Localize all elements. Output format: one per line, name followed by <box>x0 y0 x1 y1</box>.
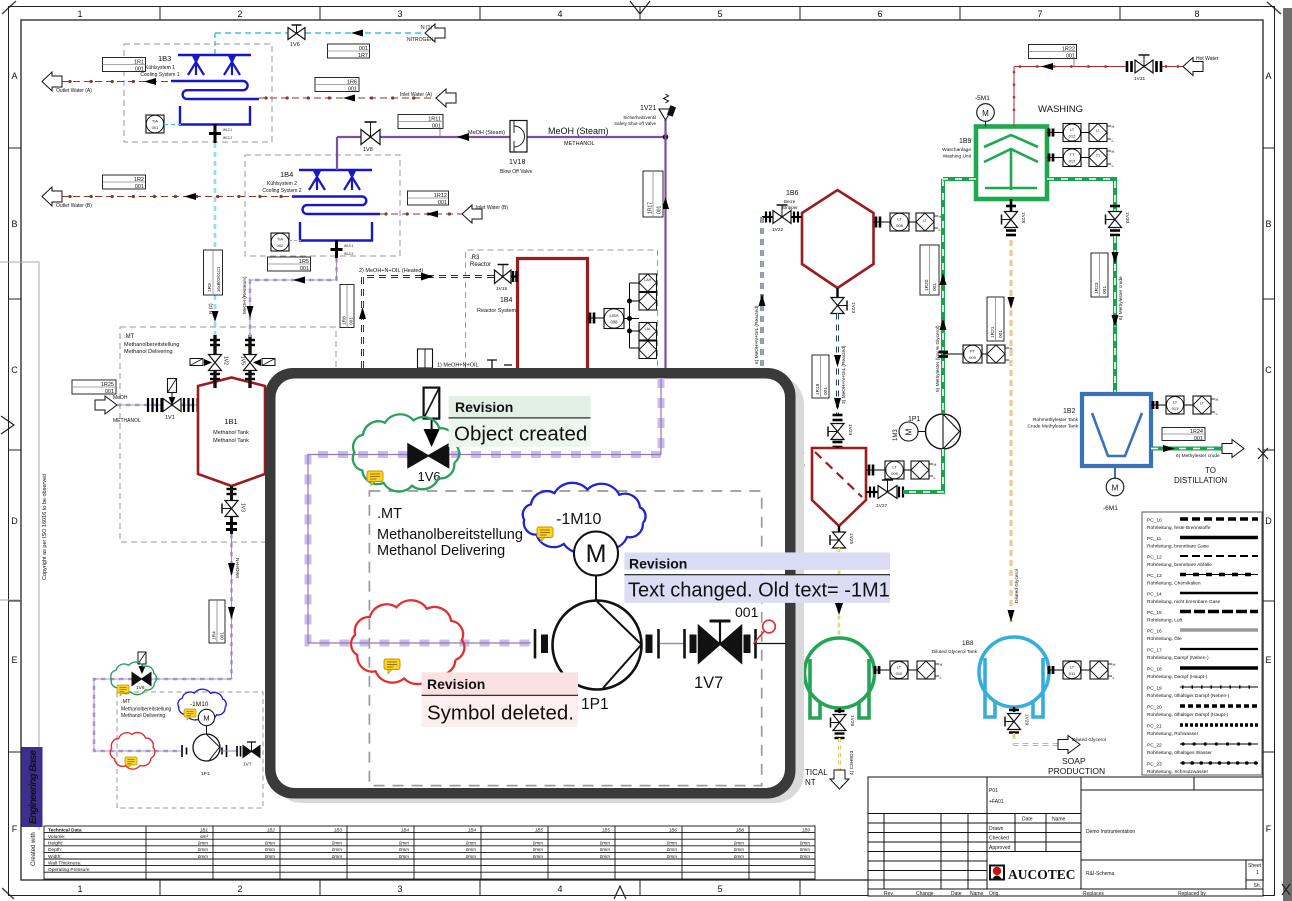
svg-text:Volume:: Volume: <box>48 834 65 840</box>
svg-text:Name: Name <box>1052 817 1066 823</box>
instrument LISA 008 <box>588 309 625 329</box>
svg-text:011: 011 <box>1069 671 1076 676</box>
drain cross 1B3 <box>209 124 221 143</box>
fold mark bottom-left <box>2 888 14 899</box>
svg-text:AUCOTEC: AUCOTEC <box>1008 867 1076 882</box>
svg-text:Methanol Tank: Methanol Tank <box>213 438 249 444</box>
svg-text:4: 4 <box>557 884 562 894</box>
popup blue cloud <box>523 483 646 553</box>
flag Outlet Water (B) <box>42 187 62 206</box>
diagonal inside 1B7 <box>815 452 862 497</box>
svg-text:Rohrleitung, Chemikalien: Rohrleitung, Chemikalien <box>1147 581 1201 587</box>
svg-text:1R21: 1R21 <box>990 326 996 338</box>
svg-text:W12.1: W12.1 <box>223 128 232 132</box>
svg-text:Methanolbereitstellung: Methanolbereitstellung <box>124 342 179 348</box>
svg-text:NITROGEN: NITROGEN <box>407 37 434 43</box>
svg-text:PC_17: PC_17 <box>1147 648 1162 654</box>
svg-text:1B6: 1B6 <box>669 828 678 833</box>
top ruler column ticks <box>160 7 1120 21</box>
svg-text:Replaced by: Replaced by <box>1178 891 1206 897</box>
svg-text:001: 001 <box>220 632 226 640</box>
svg-text:0mm: 0mm <box>600 841 610 846</box>
wire TIA001 to basin <box>164 124 181 126</box>
row letters right <box>1265 71 1272 834</box>
label 1R22 <box>1029 45 1077 67</box>
svg-text:1R25: 1R25 <box>101 382 114 388</box>
svg-text:0mm: 0mm <box>265 854 275 859</box>
label 1R17 vertical <box>643 171 663 217</box>
svg-text:0mm: 0mm <box>667 841 677 846</box>
svg-text:3) MeOH+N+OIL (Reacted): 3) MeOH+N+OIL (Reacted) <box>841 345 847 404</box>
svg-text:1V23: 1V23 <box>850 302 856 314</box>
valve 1V1 <box>163 379 181 422</box>
svg-text:001: 001 <box>300 266 309 272</box>
tank 1B1 <box>198 378 265 487</box>
svg-text:010: 010 <box>896 671 903 676</box>
svg-text:1B5: 1B5 <box>535 828 544 833</box>
air cooler 1B4 fan symbol right <box>344 171 360 190</box>
drain cross 1B4 <box>331 240 343 258</box>
svg-text:Kühlsystem 2: Kühlsystem 2 <box>267 181 297 187</box>
svg-text:TO: TO <box>1205 466 1216 475</box>
svg-text:-1M10: -1M10 <box>556 511 601 528</box>
svg-text:6) MeOH+N+OIL (Reacted): 6) MeOH+N+OIL (Reacted) <box>754 305 760 364</box>
mini comment icon blue <box>184 709 196 720</box>
svg-text:PC_20: PC_20 <box>1147 705 1162 711</box>
motor -5M1 <box>975 95 994 127</box>
arrow on MeOH steam line <box>457 133 469 141</box>
svg-text:H: H <box>1112 124 1115 129</box>
svg-text:Waschanlage: Waschanlage <box>942 147 971 153</box>
svg-text:001: 001 <box>359 46 368 52</box>
svg-text:4) C3H8O3: 4) C3H8O3 <box>849 750 855 775</box>
svg-text:1B9: 1B9 <box>802 828 811 833</box>
svg-text:0mm: 0mm <box>734 841 744 846</box>
popup pump 1P1 (magnified) <box>535 601 684 714</box>
middle column <box>987 813 1081 815</box>
svg-text:N (2): N (2) <box>208 303 214 314</box>
svg-text:Rohrleitung, Dampf (Neben-): Rohrleitung, Dampf (Neben-) <box>1147 655 1209 661</box>
svg-text:Rohmethylester Tank: Rohmethylester Tank <box>1033 417 1079 423</box>
safety valve 1V21 <box>614 94 676 137</box>
svg-text:METHANOL: METHANOL <box>113 418 141 424</box>
valve 1V23 below 1B6 <box>831 288 856 314</box>
instrument LT 010 <box>874 661 943 680</box>
popup green cloud <box>353 414 459 491</box>
motor -6M1 <box>1103 466 1124 512</box>
svg-text:PC_13: PC_13 <box>1147 573 1162 579</box>
svg-text:1B2: 1B2 <box>267 828 276 833</box>
label 1R21 vertical <box>987 297 1004 341</box>
svg-text:1: 1 <box>77 884 82 894</box>
svg-text:M: M <box>203 714 209 723</box>
label 1R6 <box>315 78 359 93</box>
washing internals bottom bar <box>985 187 1037 190</box>
svg-text:012: 012 <box>1069 134 1076 139</box>
mini valve 1V6 <box>132 652 151 691</box>
svg-text:Height:: Height: <box>48 841 63 847</box>
svg-text:1R23: 1R23 <box>1094 282 1100 294</box>
svg-text:Rohrleitung, Luft: Rohrleitung, Luft <box>1147 618 1183 624</box>
pipe 1V24 to 1B7 <box>836 447 838 448</box>
svg-text:LT: LT <box>1070 665 1075 670</box>
pipe yellow 4) C3H8O3 <box>838 738 840 770</box>
svg-text:2: 2 <box>237 9 242 19</box>
svg-text:Rohrleitung, nicht brennbare G: Rohrleitung, nicht brennbare Gase <box>1147 599 1221 605</box>
popup comment icon green <box>367 471 383 486</box>
pipe MeOH steam vertical to popup <box>664 137 666 368</box>
svg-text:0mm: 0mm <box>466 847 476 852</box>
valve 1V15 <box>494 265 518 293</box>
svg-text:008: 008 <box>896 223 903 228</box>
svg-text:002: 002 <box>277 243 284 248</box>
svg-text:DISTILLATION: DISTILLATION <box>1174 476 1227 485</box>
reactor vessel <box>518 259 588 369</box>
svg-text:0mm: 0mm <box>734 847 744 852</box>
svg-text:PC_23: PC_23 <box>1147 762 1162 768</box>
svg-text:Methanol Tank: Methanol Tank <box>213 430 249 436</box>
alarm diamond LALL <box>639 341 657 359</box>
instrument TIA 002 <box>271 233 289 251</box>
pipe hot water <box>1014 63 1183 127</box>
svg-text:Outlet Water (B): Outlet Water (B) <box>56 203 92 209</box>
svg-text:4: 4 <box>557 9 562 19</box>
svg-text:0mm: 0mm <box>734 854 744 859</box>
svg-text:Technical Data: Technical Data <box>48 828 82 834</box>
svg-text:E: E <box>11 655 17 665</box>
svg-text:Diluted Glycerol: Diluted Glycerol <box>1072 737 1106 743</box>
svg-text:1V29: 1V29 <box>1024 714 1030 726</box>
svg-text:A: A <box>1265 71 1271 81</box>
flag Hot Water <box>1183 58 1203 76</box>
popup valve 1V6 (magnified) <box>408 388 449 484</box>
svg-text:Date: Date <box>1022 817 1033 823</box>
svg-text:PC_15: PC_15 <box>1147 610 1162 616</box>
popup pipe loop (magnified) <box>308 378 661 643</box>
svg-text:PC_22: PC_22 <box>1147 743 1162 749</box>
pipe methanol feed <box>117 404 198 407</box>
svg-text:1B3: 1B3 <box>158 54 171 63</box>
flag Outlet Water (A) <box>42 72 62 91</box>
svg-text:Methanol Delivering: Methanol Delivering <box>121 713 165 719</box>
label 1R8 vertical <box>340 285 355 328</box>
svg-text:0mm: 0mm <box>332 847 342 852</box>
popup shadow <box>272 375 804 803</box>
svg-text:W13.2: W13.2 <box>344 252 353 256</box>
pipe MeOH resteam return <box>247 258 337 337</box>
pipe washing bottom outlet <box>1010 199 1013 212</box>
cooling coil 1B3 <box>171 81 259 99</box>
svg-text:8: 8 <box>1194 9 1199 19</box>
svg-text:PC_10: PC_10 <box>1147 518 1162 524</box>
svg-text:2: 2 <box>237 884 242 894</box>
flag Inlet Water (A) <box>436 89 456 107</box>
svg-text:001: 001 <box>998 330 1004 338</box>
faint window edge lines left <box>0 262 39 830</box>
svg-text:W12.2: W12.2 <box>223 136 232 140</box>
svg-text:Orig.: Orig. <box>989 891 1000 897</box>
svg-text:1B6: 1B6 <box>786 190 799 197</box>
svg-text:LT: LT <box>1070 127 1075 132</box>
svg-text:H: H <box>1112 149 1115 154</box>
svg-text:.MT: .MT <box>124 334 135 340</box>
svg-text:Safety Shut-off Valve: Safety Shut-off Valve <box>614 121 656 126</box>
pipe 2) MeOH+N+OIL (Heated) <box>359 273 494 369</box>
air cooler 1B3 fan symbol right <box>224 56 240 75</box>
pipe orange diluted glycerol down <box>1008 240 1015 622</box>
svg-text:Rohrleitung, ölhaltiger Dampf: Rohrleitung, ölhaltiger Dampf (Neben-) <box>1147 693 1230 699</box>
svg-text:0mm: 0mm <box>466 841 476 846</box>
svg-text:.R3: .R3 <box>470 255 480 261</box>
svg-text:-5M1: -5M1 <box>975 95 990 102</box>
svg-text:Sicherheitsventil: Sicherheitsventil <box>623 115 656 120</box>
pipe MeOH steam drop to 1B4 <box>336 137 338 170</box>
column numbers top <box>77 9 1199 19</box>
svg-text:Rohrleitung, ölhaltiger Dampf: Rohrleitung, ölhaltiger Dampf (Haupt-) <box>1147 712 1228 718</box>
svg-text:0mm: 0mm <box>800 854 810 859</box>
svg-text:H: H <box>940 662 943 667</box>
svg-text:Cooling System 2: Cooling System 2 <box>262 188 301 194</box>
pipe yellow 1B7 to green tank <box>835 548 843 638</box>
svg-text:MeOH (Resteam): MeOH (Resteam) <box>242 276 248 314</box>
svg-text:NT: NT <box>805 778 816 787</box>
alarm diamond LAL <box>639 323 657 341</box>
svg-text:Approved: Approved <box>989 845 1011 851</box>
svg-text:LT: LT <box>897 665 902 670</box>
tank green circle <box>805 638 875 708</box>
svg-text:Rohrleitung, Öle: Rohrleitung, Öle <box>1147 635 1182 642</box>
svg-text:1V28: 1V28 <box>1020 212 1026 224</box>
svg-text:1V26: 1V26 <box>849 715 855 727</box>
svg-text:1R11: 1R11 <box>428 117 441 123</box>
svg-text:Name: Name <box>970 891 984 897</box>
tank 1B2 <box>1082 394 1151 466</box>
label 1R23 vertical <box>1091 253 1108 297</box>
svg-text:1R24: 1R24 <box>1190 429 1203 435</box>
svg-text:Checked: Checked <box>989 836 1009 842</box>
svg-text:Hot Water: Hot Water <box>1196 56 1219 62</box>
svg-text:1: 1 <box>1256 870 1259 876</box>
group box R3 Reactor <box>466 250 658 368</box>
svg-text:0mm: 0mm <box>265 847 275 852</box>
popup red cloud <box>351 600 464 684</box>
svg-text:D: D <box>1265 516 1272 526</box>
svg-text:0mm: 0mm <box>198 854 208 859</box>
popup revision label lavender <box>624 552 890 603</box>
tank 1B8 cyan circle <box>979 637 1049 707</box>
svg-text:Sheet: Sheet <box>1248 863 1262 869</box>
svg-text:E: E <box>1265 655 1271 665</box>
svg-text:1V18: 1V18 <box>509 159 525 166</box>
svg-text:1B2: 1B2 <box>1063 408 1076 415</box>
flag MeOH METHANOL <box>95 396 117 414</box>
svg-text:1V2: 1V2 <box>223 356 229 365</box>
svg-text:7: 7 <box>1037 9 1042 19</box>
top ruler band line <box>9 19 1275 21</box>
svg-text:+FA01: +FA01 <box>989 799 1004 805</box>
instrument LT 013 <box>1151 396 1219 416</box>
svg-text:PT: PT <box>970 349 976 354</box>
svg-text:0mm: 0mm <box>600 854 610 859</box>
svg-text:Date: Date <box>951 891 962 897</box>
washing unit vessel 1B9 <box>976 127 1047 200</box>
pipe 6) MeOH+N+OIL (Reacted) riser <box>759 217 766 368</box>
pipe outlet water A <box>62 78 171 85</box>
svg-text:0mm: 0mm <box>600 847 610 852</box>
svg-text:PC_21: PC_21 <box>1147 724 1162 730</box>
svg-text:0mm: 0mm <box>466 854 476 859</box>
valve 1V28 <box>1002 206 1027 235</box>
svg-text:Replaces: Replaces <box>1083 891 1104 897</box>
svg-text:-6M1: -6M1 <box>1103 505 1118 512</box>
mini motor -1M10 <box>198 709 214 734</box>
popup frame <box>265 368 796 799</box>
pipe 6) Methylester crude export <box>1151 445 1222 452</box>
svg-text:Blow Off Valve: Blow Off Valve <box>500 169 533 175</box>
popup inner white <box>276 379 786 789</box>
flag Inlet Water (B) <box>462 205 482 223</box>
svg-text:Methanolbereitstellung: Methanolbereitstellung <box>377 527 523 543</box>
svg-text:LT: LT <box>1173 400 1178 405</box>
svg-text:16xB02/01C1: 16xB02/01C1 <box>216 266 221 292</box>
svg-text:001: 001 <box>735 604 759 620</box>
left revision rows <box>868 813 987 815</box>
pipe outlet water B <box>62 193 292 200</box>
popup comment icon red <box>384 659 400 674</box>
svg-text:Symbol deleted.: Symbol deleted. <box>427 702 574 725</box>
svg-text:M: M <box>1112 484 1119 493</box>
alarm diamond LAHH <box>639 293 657 311</box>
instrument TT 012 row <box>1047 149 1115 169</box>
svg-text:R&I-Schema: R&I-Schema <box>1086 871 1115 877</box>
svg-text:1P1: 1P1 <box>581 696 609 713</box>
svg-text:1R4: 1R4 <box>212 631 218 640</box>
washing internals chevron 1 <box>984 135 1038 147</box>
mini blue cloud <box>178 689 226 720</box>
svg-text:0mm: 0mm <box>800 847 810 852</box>
svg-text:1V6: 1V6 <box>136 685 145 691</box>
pipe inlet water A <box>259 95 436 102</box>
svg-text:1R22: 1R22 <box>1062 47 1075 53</box>
flange pair left of 1V1 <box>148 398 162 412</box>
svg-text:.MT: .MT <box>121 699 131 705</box>
svg-text:LAH: LAH <box>644 278 651 282</box>
svg-text:001: 001 <box>348 87 357 93</box>
left ruler row ticks <box>9 148 22 752</box>
svg-text:0mm: 0mm <box>533 841 543 846</box>
mini valve 1V7 <box>237 742 260 768</box>
svg-text:001: 001 <box>135 67 144 73</box>
svg-text:1M3: 1M3 <box>893 429 899 441</box>
svg-text:001: 001 <box>152 125 159 130</box>
group box .MT <box>120 327 336 542</box>
pipe MeOH steam horizontal <box>337 136 666 138</box>
svg-text:PC_18: PC_18 <box>1147 667 1162 673</box>
svg-text:MeOH+N: MeOH+N <box>235 557 241 578</box>
svg-text:1V8: 1V8 <box>363 147 373 153</box>
svg-text:MeOH (Steam): MeOH (Steam) <box>468 130 505 136</box>
label 1R1 <box>103 58 146 73</box>
svg-text:Sh.: Sh. <box>1253 883 1261 889</box>
valve 1V30 <box>1106 206 1131 235</box>
right ruler row ticks <box>1263 148 1275 752</box>
instrument PT 009 <box>939 345 1013 364</box>
svg-text:1B3: 1B3 <box>334 828 343 833</box>
svg-text:6) Methylester crude: 6) Methylester crude <box>1118 276 1124 320</box>
svg-text:1R19: 1R19 <box>815 383 821 395</box>
svg-text:Revision: Revision <box>427 676 485 692</box>
svg-text:001: 001 <box>432 124 441 130</box>
svg-text:1P1: 1P1 <box>908 416 921 423</box>
svg-text:Rohrleitung, Dampf (Haupt-): Rohrleitung, Dampf (Haupt-) <box>1147 674 1208 680</box>
right section <box>1081 789 1263 791</box>
svg-text:1B4: 1B4 <box>468 828 477 833</box>
svg-text:Demo Instrumentation: Demo Instrumentation <box>1086 829 1135 835</box>
pump 1P1 main <box>908 414 961 449</box>
svg-text:1V31: 1V31 <box>1134 76 1146 82</box>
fold mark top-left <box>2 1 16 14</box>
popup motor -1M10 <box>574 532 618 601</box>
svg-text:PC_14: PC_14 <box>1147 592 1162 598</box>
svg-text:1V7: 1V7 <box>694 674 723 692</box>
air cooler 1B3 fan symbol left <box>188 56 204 75</box>
svg-text:PC_11: PC_11 <box>1147 536 1162 542</box>
tank 1B1 bottom outlet flanges <box>227 489 237 494</box>
svg-text:0mm: 0mm <box>667 854 677 859</box>
svg-text:D: D <box>11 516 18 526</box>
svg-text:SOAP: SOAP <box>1062 756 1086 766</box>
instrument LT 008 <box>874 213 942 232</box>
svg-text:Revision: Revision <box>629 556 687 572</box>
washing internals stem <box>1010 149 1013 190</box>
pipe pump outlet to 1V27 <box>903 449 943 492</box>
motor 1M3 <box>893 422 926 441</box>
valve 1V22 <box>762 205 802 233</box>
svg-text:009: 009 <box>969 355 976 360</box>
mini green cloud <box>111 662 157 695</box>
popup comment icon blue <box>537 527 553 542</box>
svg-text:1B1: 1B1 <box>224 417 237 426</box>
svg-text:Object created: Object created <box>454 423 587 446</box>
svg-text:0mm: 0mm <box>399 841 409 846</box>
svg-text:2) MeOH+N+OIL (Heated): 2) MeOH+N+OIL (Heated) <box>359 268 423 274</box>
svg-text:PC_19: PC_19 <box>1147 686 1162 692</box>
flag TO DISTILLATION <box>1222 440 1244 458</box>
svg-text:012: 012 <box>1069 159 1076 164</box>
svg-text:1P1: 1P1 <box>201 771 210 777</box>
arrow on nitrogen line <box>351 30 363 37</box>
label 1R24 <box>1162 428 1205 443</box>
label 1R3 / 16xB02/01C1 vertical <box>204 250 223 295</box>
svg-text:1V24: 1V24 <box>847 424 853 436</box>
instrument LT 012 row <box>1047 124 1115 144</box>
svg-text:Methanol Delivering: Methanol Delivering <box>377 543 505 559</box>
svg-text:1V22: 1V22 <box>772 227 784 233</box>
svg-text:1B5: 1B5 <box>602 828 611 833</box>
label 1R7 <box>328 44 370 59</box>
pipe N2 drop into 1B3 <box>214 33 216 54</box>
svg-text:Operating Pressure: Operating Pressure <box>48 867 90 873</box>
svg-text:C: C <box>11 365 18 375</box>
svg-text:Depth:: Depth: <box>48 847 62 853</box>
svg-text:Methanolbereitstellung: Methanolbereitstellung <box>121 707 172 713</box>
svg-text:0mm: 0mm <box>533 847 543 852</box>
svg-text:1B4: 1B4 <box>280 170 293 179</box>
svg-text:1R2: 1R2 <box>134 177 144 183</box>
legend box <box>1142 512 1262 775</box>
svg-text:1B1: 1B1 <box>200 828 209 833</box>
svg-text:TIA: TIA <box>152 119 159 124</box>
